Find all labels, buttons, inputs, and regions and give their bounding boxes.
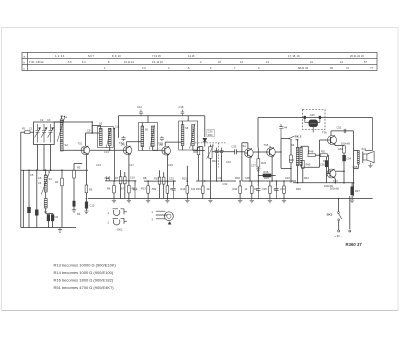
- coil S1 adjust arrow: [57, 118, 64, 142]
- svg-text:13: 13: [266, 60, 269, 64]
- trimmer C5: [28, 207, 31, 213]
- wire IFT1 sec bottom: [109, 146, 111, 151]
- oscillator coil S4: [44, 199, 47, 209]
- IFT1 core arrow: [106, 128, 111, 148]
- wire sec bottom: [301, 155, 320, 167]
- resistor R3: [73, 170, 76, 178]
- junction dots rail: [114, 180, 116, 182]
- AGC resistor R6: [113, 186, 116, 193]
- resistor R40: [283, 186, 286, 193]
- wire IFT3 sec to detector: [193, 146, 205, 151]
- svg-text:R4: R4: [77, 212, 81, 216]
- svg-text:5: 5: [188, 66, 190, 70]
- IF transformer 2 box: [139, 123, 158, 151]
- mid rail segment 2: [144, 180, 176, 182]
- wire TS1 collector: [84, 133, 86, 146]
- svg-text:100: 100: [274, 187, 279, 191]
- svg-text:C44: C44: [282, 125, 287, 129]
- ground right end: [350, 199, 354, 203]
- svg-text:R15: R15: [182, 176, 187, 180]
- emitter resistor R37: [269, 186, 272, 193]
- junction C54 rail: [343, 182, 345, 184]
- switch SK3 lever: [339, 213, 342, 219]
- junction R42: [290, 139, 291, 140]
- wire TS3 collector up: [165, 142, 181, 146]
- svg-text:C22: C22: [169, 176, 174, 180]
- wire battery minus: [349, 196, 351, 229]
- wire IFT2 primary bottom to TS2 collector: [132, 147, 142, 150]
- ground under speaker: [368, 163, 372, 168]
- svg-text:72: 72: [346, 66, 349, 70]
- bypass cap C14: [133, 186, 137, 199]
- svg-text:C31: C31: [218, 176, 223, 180]
- decoupling R14: [186, 186, 189, 193]
- electrolytic C50: [326, 157, 328, 161]
- svg-text:C54: C54: [346, 157, 351, 161]
- svg-text:c: c: [24, 67, 26, 70]
- wire left input: [21, 131, 25, 133]
- svg-text:1k8: 1k8: [159, 143, 164, 147]
- svg-text:b: b: [24, 60, 26, 64]
- resistor R42: [290, 155, 293, 163]
- wire IFT3 primary bottom: [182, 146, 184, 150]
- resistor R1: [25, 131, 30, 134]
- svg-text:C7: C7: [44, 210, 48, 214]
- wire TS3 emitter: [166, 155, 168, 186]
- svg-text:C39: C39: [280, 187, 285, 191]
- svg-text:3: 3: [152, 217, 154, 221]
- coil S1 top stub: [60, 116, 62, 119]
- svg-text:SK3: SK3: [327, 213, 333, 217]
- mid rail segment 4: [242, 180, 296, 182]
- svg-text:R44: R44: [304, 176, 309, 180]
- IFT1 secondary coil: [108, 128, 111, 145]
- antenna coil S1: [60, 119, 63, 140]
- junction: [353, 182, 355, 184]
- wire caps to bus: [48, 221, 52, 228]
- junction box drops: [43, 169, 45, 171]
- resistor R47: [351, 187, 354, 195]
- svg-text:C12: C12: [137, 105, 142, 109]
- wire branch x62: [61, 170, 63, 178]
- wire TS7 emitter to rail: [334, 178, 337, 183]
- page bottom shadow edge: [2, 310, 399, 312]
- table row labels: [24, 55, 26, 70]
- wire collector node down to driver bias: [281, 152, 291, 168]
- top supply rail IF: [119, 115, 205, 117]
- svg-text:C1: C1: [29, 126, 33, 130]
- transistor TS2: [123, 146, 132, 155]
- SECTION: extra detail parts: [22, 115, 339, 219]
- wire R1 to frame box: [30, 131, 34, 133]
- volume potentiometer R31: [209, 147, 212, 159]
- svg-text:C16: C16: [130, 176, 135, 180]
- box pad drops: [305, 119, 320, 123]
- svg-text:R49: R49: [323, 159, 328, 163]
- ground symbols on rail: [112, 199, 116, 203]
- svg-text:20 21 22 23: 20 21 22 23: [350, 54, 364, 58]
- bypass cap C19: [171, 186, 175, 199]
- wire TS4 to TS5: [253, 152, 266, 154]
- svg-text:R1: R1: [22, 127, 26, 131]
- electrolytic C10a: [73, 201, 76, 206]
- svg-text:C10: C10: [90, 204, 95, 208]
- loudspeaker voice coil: [362, 152, 364, 164]
- svg-text:C35: C35: [262, 187, 267, 191]
- wire branch x74 emitter return: [74, 164, 82, 171]
- svg-text:SK1: SK1: [117, 228, 123, 232]
- box contact pad right: [319, 116, 321, 119]
- table row 1 numbers: [55, 54, 364, 58]
- wire collector hline: [85, 132, 99, 134]
- IFT2 primary coil: [141, 126, 144, 147]
- feedback capacitor C52: [344, 129, 346, 133]
- switch SK3 contacts: [338, 212, 340, 214]
- svg-text:1: 1: [104, 66, 106, 70]
- wire SK2 node down: [290, 140, 292, 155]
- svg-text:S9: S9: [291, 143, 295, 147]
- box contact pad left: [304, 116, 306, 119]
- svg-text:R39: R39: [264, 176, 269, 180]
- svg-text:R38: R38: [264, 170, 269, 174]
- svg-text:14 16: 14 16: [188, 54, 195, 58]
- svg-text:S2: S2: [65, 143, 69, 147]
- base bias resistors R7 R8: [119, 177, 122, 184]
- wire R51 to TS7 base: [327, 155, 328, 173]
- wire C54 down: [343, 153, 345, 183]
- svg-text:R13: R13: [141, 187, 146, 191]
- svg-text:R16: R16: [196, 187, 201, 191]
- svg-text:C36: C36: [245, 176, 250, 180]
- AGC resistor R16: [202, 186, 205, 193]
- svg-text:C5: C5: [30, 173, 34, 177]
- wire branch x29: [28, 170, 30, 207]
- wire from ground rail to SK3: [338, 199, 340, 212]
- svg-text:4k7: 4k7: [207, 187, 212, 191]
- driver transformer T1 primary: [296, 147, 299, 165]
- svg-text:+ 9V –: + 9V –: [335, 234, 343, 238]
- bypass cap C35: [256, 186, 260, 199]
- svg-text:4: 4: [168, 66, 170, 70]
- svg-text:S3: S3: [49, 177, 53, 181]
- wire TS5 collector to SK2: [275, 139, 289, 152]
- IFT3 primary coil: [181, 125, 184, 146]
- svg-text:14: 14: [340, 60, 343, 64]
- svg-text:7: 7: [234, 66, 236, 70]
- capacitor C46: [279, 124, 282, 139]
- ground left bus: [58, 228, 62, 233]
- IFT2 core arrow: [149, 125, 154, 150]
- padder cap C7: [47, 215, 50, 221]
- wire TS4 emitter: [249, 157, 251, 181]
- svg-text:R5: R5: [89, 188, 93, 192]
- svg-text:R31: R31: [212, 159, 217, 163]
- svg-text:C11: C11: [115, 125, 120, 129]
- svg-text:2: 2: [200, 60, 202, 64]
- dashed drop to switch: [217, 143, 219, 168]
- SECTION: left bottom oscillator: [21, 145, 95, 233]
- ground under C10: [84, 211, 88, 214]
- base bias resistors R10 R11: [158, 177, 161, 184]
- collector load R33: [257, 159, 260, 167]
- svg-text:C3: C3: [47, 118, 51, 122]
- svg-text:R36: R36: [235, 176, 240, 180]
- svg-text:R14 becomes 1000 Ω (900/E100): R14 becomes 1000 Ω (900/E100): [54, 270, 114, 275]
- wire S2 to TS1 base: [63, 149, 81, 152]
- right vertical main: [353, 131, 355, 196]
- junction x319.5: [319, 154, 321, 156]
- resistor R53: [343, 146, 346, 153]
- wire top rail left: [54, 121, 92, 123]
- bottom modification text block: [54, 263, 117, 291]
- wire second left vertical: [22, 170, 24, 227]
- svg-text:7 30, 1 80 kc: 7 30, 1 80 kc: [29, 60, 45, 64]
- svg-text:1k8: 1k8: [121, 142, 126, 146]
- svg-text:R10: R10: [154, 176, 159, 180]
- wire TS5 collector: [267, 144, 271, 147]
- wire rail to TS5 collector: [257, 118, 259, 148]
- svg-text:TS1: TS1: [78, 142, 83, 146]
- transistor TS3: [162, 147, 171, 156]
- trimmer C6: [35, 210, 38, 216]
- detector diode: [203, 138, 207, 142]
- svg-text:S8: S8: [185, 126, 189, 130]
- battery minus terminal: [349, 230, 351, 232]
- plug body circle: [165, 212, 174, 221]
- svg-text:R6: R6: [107, 187, 111, 191]
- bypass cap C39: [274, 186, 278, 199]
- transistor TS7: [327, 169, 336, 178]
- svg-text:C2: C2: [40, 118, 44, 122]
- svg-text:7 13 15: 7 13 15: [152, 54, 161, 58]
- capacitor C54 blob: [343, 155, 346, 161]
- svg-text:C32: C32: [223, 182, 228, 186]
- svg-text:1: 1: [108, 211, 110, 215]
- svg-text:S5: S5: [99, 122, 103, 126]
- svg-text:R3: R3: [77, 166, 81, 170]
- emitter resistor R12: [166, 186, 169, 193]
- svg-text:R360 37: R360 37: [346, 242, 363, 247]
- svg-text:21: 21: [310, 60, 313, 64]
- junction: [335, 182, 337, 184]
- svg-text:C4: C4: [38, 181, 42, 185]
- SECTION: IF amplifier stages: [88, 105, 373, 203]
- ground stub under R33: [256, 169, 260, 172]
- ground symbols right row: [204, 198, 206, 200]
- junction: [109, 150, 111, 152]
- svg-text:R30: R30: [208, 133, 213, 137]
- svg-text:TS5: TS5: [264, 143, 269, 147]
- wire TS7 collector to node: [336, 170, 344, 172]
- svg-text:C30: C30: [208, 130, 213, 134]
- emitter resistor R9: [128, 186, 131, 193]
- svg-text:160mW: 160mW: [341, 142, 350, 146]
- svg-text:C8: C8: [55, 215, 59, 219]
- svg-text:R46: R46: [296, 187, 301, 191]
- wire switch to battery plus: [338, 221, 340, 230]
- svg-text:160mW: 160mW: [324, 184, 333, 188]
- rail lower right: [293, 182, 354, 184]
- decoupling R13: [147, 186, 150, 193]
- transistor TS4: [245, 149, 254, 158]
- svg-text:TS6: TS6: [322, 131, 327, 135]
- revision table frame: [22, 53, 377, 71]
- svg-text:5-9 7: 5-9 7: [88, 54, 94, 58]
- electrolytic C10: [85, 202, 88, 209]
- svg-text:C33: C33: [232, 145, 237, 149]
- wire TS2 collector up: [125, 116, 127, 146]
- IFT3 core arrow: [190, 124, 195, 149]
- base resistor R34: [239, 186, 242, 193]
- resistor R51: [320, 154, 327, 157]
- svg-text:R14: R14: [181, 187, 186, 191]
- svg-text:5 6: 5 6: [68, 60, 72, 64]
- driver transformer T1 secondary: [300, 147, 303, 165]
- emitter resistor R35: [251, 186, 254, 193]
- svg-text:16: 16: [218, 60, 221, 64]
- svg-text:C49: C49: [310, 113, 315, 117]
- wire R42 to rail: [290, 163, 292, 183]
- junction dots mid: [128, 180, 130, 182]
- svg-text:C9: C9: [87, 129, 91, 133]
- antenna coil S2 secondary: [60, 141, 63, 152]
- svg-text:8, 9, 10: 8, 9, 10: [112, 54, 121, 58]
- svg-text:8: 8: [108, 60, 110, 64]
- svg-text:58 61 63: 58 61 63: [298, 66, 309, 70]
- svg-text:SK 2: SK 2: [295, 135, 302, 139]
- electrolytic C32: [220, 148, 224, 157]
- svg-text:1: 1: [152, 210, 154, 214]
- svg-text:C6: C6: [38, 176, 42, 180]
- AGC resistor R32: [197, 147, 200, 154]
- svg-text:C40: C40: [285, 176, 290, 180]
- svg-text:9: 9: [258, 66, 260, 70]
- svg-text:6: 6: [210, 66, 212, 70]
- svg-text:S6: S6: [145, 128, 149, 132]
- wire right edge drop: [372, 118, 374, 151]
- svg-text:65: 65: [330, 66, 333, 70]
- wire primary bottom: [297, 166, 299, 183]
- wire right edge to speaker top: [365, 150, 373, 152]
- wire pot top to C33: [210, 145, 234, 152]
- svg-text:C34: C34: [226, 160, 231, 164]
- capacitor C13: [106, 176, 109, 181]
- plug contact lines: [156, 211, 168, 219]
- emitter resistor R5: [85, 185, 88, 193]
- wire left vertical drop: [20, 132, 22, 227]
- dashed box outline: [303, 110, 326, 130]
- IF transformer 3 box: [179, 121, 198, 150]
- ground under pot: [208, 200, 212, 203]
- oscillator coil S3: [44, 175, 47, 192]
- transistor TS1: [81, 146, 90, 155]
- wire TS6 emitter to R53: [335, 145, 344, 146]
- wire sec top to base network: [301, 146, 308, 154]
- resistor R48: [308, 154, 315, 157]
- junction: [297, 182, 299, 184]
- wire TS4 collector up: [242, 143, 248, 181]
- coupling capacitor C33: [235, 149, 237, 154]
- electrolytic C31: [215, 148, 219, 157]
- wire rail right drop to detector: [204, 116, 206, 137]
- capacitor C18 on rail: [181, 110, 185, 116]
- svg-text:10 11 12: 10 11 12: [124, 60, 134, 64]
- svg-text:C13: C13: [104, 150, 109, 154]
- wire TS6 collector up and feedback: [331, 131, 354, 136]
- top AF rail segment: [258, 117, 303, 119]
- wire R32: [199, 147, 203, 181]
- svg-text:A53: A53: [338, 147, 343, 151]
- svg-text:R7: R7: [115, 176, 119, 180]
- svg-text:R43: R43: [289, 158, 294, 162]
- wire branch x36.8: [36, 170, 38, 210]
- wire to TS6 base: [320, 140, 328, 155]
- SECTION: output stage: [256, 124, 374, 203]
- svg-text:R9: R9: [132, 187, 136, 191]
- IF transformer 1 box: [98, 127, 114, 148]
- tuning capacitor C3: [48, 124, 54, 143]
- svg-text:R51: R51: [321, 149, 326, 153]
- svg-text:2k7: 2k7: [120, 187, 125, 191]
- svg-text:R33: R33: [261, 161, 266, 165]
- wire IFT3 top stub: [183, 116, 189, 125]
- junction dots: [249, 180, 251, 182]
- battery plus terminal: [338, 230, 340, 232]
- svg-text:R47: R47: [355, 189, 360, 193]
- wire IFT2 sec to TS3: [153, 147, 162, 151]
- svg-text:2: 2: [108, 220, 110, 224]
- transistor TS6: [328, 136, 337, 145]
- svg-text:1k: 1k: [245, 187, 248, 191]
- svg-text:C15: C15: [105, 176, 110, 180]
- svg-text:C55: C55: [353, 165, 358, 169]
- wire box top to coil: [54, 121, 60, 123]
- svg-text:6 4: 6 4: [82, 60, 86, 64]
- wire TS1 to TS2 signal: [90, 149, 123, 151]
- wire TS2 emitter: [128, 154, 130, 185]
- wire osc top hline: [21, 169, 88, 171]
- svg-text:R34: R34: [233, 187, 238, 191]
- base capacitor TS3 cluster: [160, 136, 164, 141]
- svg-text:S1: S1: [64, 115, 68, 119]
- mid rail segment 3: [180, 180, 182, 182]
- capacitor C12 on rail: [139, 110, 143, 116]
- switch SK2 lever: [289, 136, 294, 139]
- bottom bus left: [21, 227, 76, 229]
- svg-text:12: 12: [240, 60, 243, 64]
- wire IFT2 top stub: [142, 116, 148, 126]
- box bottom stub: [312, 127, 314, 133]
- svg-text:C17: C17: [129, 163, 134, 167]
- svg-text:10k: 10k: [191, 187, 196, 191]
- svg-text:R35: R35: [254, 187, 259, 191]
- output transformer coil S12: [354, 150, 359, 152]
- ground under x74: [72, 210, 76, 213]
- mid rail segment 1: [105, 180, 136, 182]
- svg-text:R32: R32: [193, 150, 198, 154]
- wire OT bottom down: [354, 164, 359, 172]
- table row 3 numbers: [104, 66, 373, 70]
- drawing number: [346, 242, 363, 247]
- wire rail through box: [302, 116, 373, 118]
- wire switch to driver transformer: [296, 140, 298, 148]
- wire TS1 emitter down: [85, 155, 87, 185]
- resistor R38: [258, 175, 275, 177]
- svg-text:2 3: 2 3: [142, 66, 146, 70]
- padder cap C8: [51, 215, 54, 221]
- wire coil stubs: [45, 170, 47, 213]
- frame antenna box: [34, 122, 55, 145]
